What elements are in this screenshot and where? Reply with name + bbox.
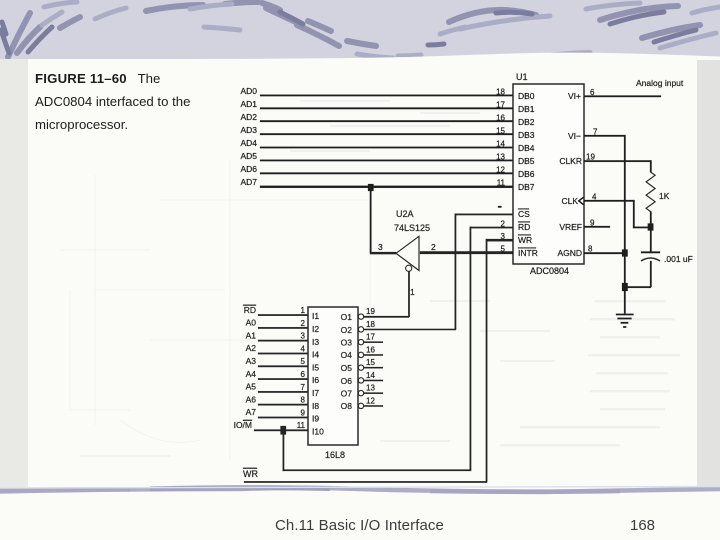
svg-text:17: 17 [496,101,505,110]
svg-text:DB6: DB6 [518,169,535,179]
node junction on IO/M wire [281,426,287,435]
svg-text:A3: A3 [246,356,257,366]
wire AD1 [260,108,513,110]
U1 right pin numbers [586,88,598,254]
svg-text:O4: O4 [341,350,353,360]
svg-text:2: 2 [431,242,436,252]
wire junction to capacitor top [650,227,652,252]
svg-text:2: 2 [301,319,306,328]
16L8 output pin names O1-O8 [341,312,353,411]
wire AD2 [260,120,513,122]
svg-text:19: 19 [366,307,375,316]
svg-text:I2: I2 [312,324,319,334]
svg-text:ADC0804: ADC0804 [530,266,569,276]
16L8 output pin numbers [366,307,375,405]
wire AD0 [260,95,513,97]
capacitor C1 bottom curved plate [641,258,660,261]
svg-text:8: 8 [588,245,593,254]
faint scan bleed-through texture (decorative) [60,160,370,460]
16L8 input net labels [234,305,257,430]
wire VI- vertical down to ground node [624,135,626,287]
wire buffer input from INTR (thick) [420,251,513,254]
svg-text:AGND: AGND [557,248,582,258]
svg-text:17: 17 [366,333,375,342]
wire buffer output to AD7 drop [370,252,396,254]
svg-text:CLK: CLK [561,196,578,206]
svg-text:CS: CS [518,209,530,219]
svg-text:WR: WR [518,235,532,245]
wire AD3 [260,133,513,135]
svg-text:U2A: U2A [396,209,414,219]
wire WR bottom horizontal [244,481,487,483]
svg-text:AD6: AD6 [240,164,257,174]
svg-text:14: 14 [366,371,375,380]
svg-text:I5: I5 [312,362,319,372]
U1 left pin numbers [496,88,505,254]
svg-text:I8: I8 [312,401,319,411]
footer rule [0,488,720,492]
svg-text:I9: I9 [312,414,319,424]
svg-text:1: 1 [301,306,306,315]
svg-text:15: 15 [496,127,505,136]
svg-text:9: 9 [301,408,306,417]
ground [616,314,634,316]
svg-text:I7: I7 [312,388,319,398]
svg-text:13: 13 [496,153,505,162]
wire enable down to O1 [408,272,410,318]
wire CLK vertical [633,200,635,228]
node RC junction [648,224,654,231]
svg-text:18: 18 [366,320,375,329]
wire RD bottom horizontal to IO/M junction [283,470,471,472]
svg-text:AD7: AD7 [240,177,257,187]
svg-text:8: 8 [301,396,306,405]
transistor 16L8 PAL box [308,307,358,445]
wire CLKR vertical to resistor [650,160,652,172]
op-amp U1 ADC0804 box [513,84,584,264]
wire AD7 [260,186,513,188]
svg-text:O7: O7 [341,389,353,399]
wire O7 stub [364,392,383,394]
svg-text:.001 uF: .001 uF [664,254,693,264]
wire AD5 [260,160,513,162]
svg-text:12: 12 [366,397,375,406]
svg-text:I10: I10 [312,426,324,436]
wire O4 stub [364,354,383,356]
wire AD6 [260,173,513,175]
16L8 left pin numbers [297,306,306,430]
svg-text:I3: I3 [312,337,319,347]
wire VI+ to analog input [584,96,661,98]
wire IO/M to 16L8 [254,430,308,432]
svg-text:O5: O5 [341,363,353,373]
wire CLKR horizontal [584,160,651,162]
svg-text:16: 16 [496,114,505,123]
wire RD to 16L8 [258,314,308,316]
svg-text:I1: I1 [312,311,319,321]
wire O8 stub [364,405,383,407]
svg-text:A6: A6 [246,394,257,404]
node junction on AD7 [368,184,374,191]
svg-text:RD: RD [244,305,256,315]
svg-text:VREF: VREF [559,222,582,232]
wire A7 to 16L8 [258,417,308,419]
wire WR vertical down [486,239,488,482]
svg-text:4: 4 [301,344,306,353]
svg-text:74LS125: 74LS125 [394,223,430,233]
svg-text:AD0: AD0 [240,86,257,96]
svg-text:DB7: DB7 [518,182,535,192]
svg-text:O8: O8 [341,401,353,411]
node AGND junction on VI- vertical [622,250,628,257]
wire O3 stub [364,341,383,343]
svg-text:11: 11 [297,421,306,430]
wire CS vertical down to O2 [455,214,457,330]
wire O2 to CS vertical [364,329,456,331]
svg-text:IO/M: IO/M [234,420,252,430]
svg-text:AD2: AD2 [240,112,257,122]
svg-text:19: 19 [586,153,595,162]
IO/M overline over M [243,420,252,421]
svg-text:AD3: AD3 [240,125,257,135]
svg-text:Analog input: Analog input [636,78,684,88]
svg-text:DB3: DB3 [518,130,535,140]
svg-text:7: 7 [301,383,306,392]
svg-text:13: 13 [366,384,375,393]
svg-text:CLKR: CLKR [559,156,582,166]
RD overline [243,305,256,306]
pin 1 tick for CS [498,206,502,208]
wire capacitor bottom down [650,261,652,287]
svg-text:6: 6 [301,370,306,379]
svg-text:A0: A0 [246,318,257,328]
svg-text:RD: RD [518,222,530,232]
svg-text:18: 18 [496,88,505,97]
svg-text:3: 3 [301,332,306,341]
wire A4 to 16L8 [258,378,308,380]
svg-text:AD1: AD1 [240,99,257,109]
svg-text:VI−: VI− [568,131,581,141]
wire VI- horizontal [584,135,625,137]
wire A6 to 16L8 [258,404,308,406]
U1 right pin names [557,91,582,258]
CLK input arrow [579,197,584,205]
svg-text:A5: A5 [246,382,257,392]
WR overline [243,468,257,469]
svg-text:1: 1 [410,287,415,297]
svg-text:O6: O6 [341,376,353,386]
svg-text:16L8: 16L8 [325,450,345,460]
wire AGND horizontal [584,252,625,254]
svg-text:5: 5 [301,357,306,366]
wire A1 to 16L8 [258,340,308,342]
wavy bottom edge of banner [0,53,720,60]
wire CS horizontal [455,214,513,216]
wire CLK horizontal [584,200,634,202]
svg-text:A2: A2 [246,343,257,353]
wire WR(ADC) horizontal thick [486,239,513,241]
overlines for CS RD WR INTR [518,208,529,211]
wire AD4 [260,147,513,149]
svg-text:U1: U1 [516,72,528,82]
wire IO/M junction vertical [283,430,285,471]
wire resistor bottom to junction [650,212,652,228]
svg-text:A1: A1 [246,330,257,340]
wire A5 to 16L8 [258,391,308,393]
16L8 output bubbles [358,314,363,409]
wire RD horizontal [470,227,513,229]
svg-text:DB0: DB0 [518,91,535,101]
svg-text:11: 11 [497,179,506,188]
svg-text:A4: A4 [246,369,257,379]
banner [0,0,720,60]
svg-text:15: 15 [366,358,375,367]
svg-text:VI+: VI+ [568,91,581,101]
AD bus labels [240,86,257,187]
svg-text:1K: 1K [659,191,670,201]
resistor R1 1K zigzag [646,172,655,212]
svg-text:AD4: AD4 [240,138,257,148]
U2A enable bubble [406,265,412,271]
svg-text:16: 16 [366,346,375,355]
svg-text:A7: A7 [246,407,257,417]
svg-text:O3: O3 [341,338,353,348]
svg-text:INTR: INTR [518,248,538,258]
capacitor C1 top plate [641,252,660,254]
wire ground stem [624,291,626,314]
wire O5 stub [364,367,383,369]
svg-text:I6: I6 [312,375,319,385]
wire O6 stub [364,380,383,382]
wire from AD7 junction down to buffer output [370,188,372,253]
node ground junction [622,283,628,291]
wire CLK to RC node [633,227,651,229]
svg-text:AD5: AD5 [240,151,257,161]
svg-text:WR: WR [243,469,258,479]
wire O1 horizontal to enable [364,316,409,318]
wire A3 to 16L8 [258,366,308,368]
svg-text:14: 14 [496,140,505,149]
svg-text:DB2: DB2 [518,117,535,127]
wire VREF stub [584,226,610,228]
svg-text:DB4: DB4 [518,143,535,153]
svg-text:I4: I4 [312,350,319,360]
wire RD vertical down [470,227,472,471]
wire A0 to 16L8 [258,327,308,329]
svg-text:12: 12 [496,166,505,175]
svg-text:DB5: DB5 [518,156,535,166]
svg-text:O1: O1 [341,312,353,322]
svg-text:3: 3 [378,242,383,252]
U2A triangle [396,236,419,270]
svg-text:O2: O2 [341,325,353,335]
svg-text:DB1: DB1 [518,104,535,114]
wire bottom horizontal to ground node [624,286,651,288]
wire A2 to 16L8 [258,353,308,355]
